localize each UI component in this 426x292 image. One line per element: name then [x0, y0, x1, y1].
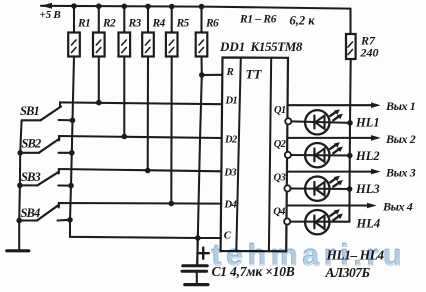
- svg-text:R5: R5: [176, 18, 190, 30]
- output bubble Q1: [285, 118, 291, 124]
- arrow Vyh3: [371, 169, 381, 175]
- node: rail junction R3: [122, 4, 128, 10]
- wire R5 to D4 row: [170, 57, 172, 204]
- capacitor C1: [182, 238, 209, 284]
- svg-text:D2: D2: [224, 135, 238, 146]
- arrow Vyh1: [371, 102, 381, 108]
- switch SB3: [20, 170, 71, 186]
- svg-text:Q1: Q1: [274, 105, 286, 116]
- resistor R6: [196, 7, 219, 57]
- node: SB4 contact on bus: [67, 217, 73, 223]
- svg-text:R1 – R6: R1 – R6: [239, 14, 277, 26]
- svg-text:R1: R1: [77, 18, 90, 30]
- resistor R3: [119, 6, 142, 56]
- svg-text:HL2: HL2: [355, 149, 380, 163]
- node: SB3 pivot: [17, 183, 23, 189]
- wire Vyh3 row: [288, 171, 372, 173]
- wire D2 row: [59, 136, 222, 141]
- svg-text:SB2: SB2: [22, 137, 41, 151]
- wire Vyh2 row: [288, 137, 372, 139]
- wire R3 to D2 row: [123, 57, 125, 137]
- watermark tehmari.ru: [211, 238, 406, 272]
- switch SB1: [20, 104, 73, 120]
- svg-text:Q2: Q2: [274, 139, 287, 150]
- node: HL2 cathode bus: [347, 153, 353, 159]
- LED HL3: [291, 176, 380, 201]
- wire R1 column / clock bus: [70, 57, 221, 239]
- +5V arrow: [41, 3, 52, 9]
- svg-text:D1: D1: [225, 96, 238, 107]
- node: rail junction R1: [71, 3, 77, 9]
- node: R3-D2 junction: [122, 134, 128, 140]
- wire left ground bus: [19, 120, 21, 250]
- svg-text:D3: D3: [223, 168, 236, 179]
- resistor R2: [93, 6, 116, 56]
- svg-text:К155ТМ8: К155ТМ8: [250, 39, 303, 54]
- node: rail junction R4: [145, 4, 151, 10]
- node: R6-R row junction: [199, 72, 205, 78]
- resistor R4: [142, 6, 165, 56]
- svg-text:R3: R3: [128, 18, 142, 30]
- svg-text:SB3: SB3: [21, 170, 40, 184]
- switch SB4: [19, 205, 70, 221]
- wire R6 column down to capacitor: [197, 57, 202, 266]
- svg-text:R: R: [226, 66, 234, 78]
- LED HL4: [290, 209, 380, 234]
- svg-text:Вых 4: Вых 4: [382, 200, 413, 214]
- ground under C1: [185, 283, 208, 286]
- resistor R5: [166, 7, 190, 57]
- ground left: [7, 249, 29, 252]
- svg-text:HL4: HL4: [356, 216, 381, 230]
- node: R2-D1 junction: [96, 100, 102, 106]
- node: SB3 contact on bus: [68, 183, 74, 189]
- node: rail junction R5: [169, 4, 175, 10]
- IC right divider: [269, 58, 271, 252]
- node: SB2 contact on bus: [69, 150, 75, 156]
- svg-text:HL3: HL3: [355, 182, 380, 196]
- node: HL3 cathode bus: [347, 186, 353, 192]
- node: SB4 pivot: [16, 218, 22, 224]
- output bubble Q4: [284, 218, 290, 224]
- wire D4 row: [59, 203, 222, 208]
- switch SB2: [20, 137, 72, 153]
- svg-text:Вых 1: Вых 1: [385, 99, 415, 113]
- arrow Vyh4: [367, 203, 377, 209]
- node: rail junction R2: [96, 3, 102, 9]
- IC left divider: [236, 58, 241, 252]
- svg-text:R4: R4: [152, 18, 166, 30]
- svg-text:Вых 2: Вых 2: [385, 132, 416, 146]
- svg-text:SB1: SB1: [20, 104, 39, 118]
- svg-text:DD1: DD1: [219, 39, 245, 54]
- svg-text:Вых 3: Вых 3: [385, 166, 416, 180]
- svg-text:R6: R6: [205, 18, 219, 30]
- node: capacitor tap on C row: [195, 235, 201, 241]
- node: R5-D4 junction: [169, 201, 175, 207]
- node: HL1 cathode bus: [347, 120, 353, 126]
- wire D1 row: [60, 102, 222, 107]
- svg-text:R2: R2: [102, 18, 116, 30]
- arrow Vyh2: [371, 135, 381, 141]
- node: SB2 pivot: [17, 150, 23, 156]
- svg-text:tehmari.ru: tehmari.ru: [212, 239, 407, 272]
- output bubble Q2: [285, 152, 291, 158]
- IC DD1 K155TM8 outline: [221, 58, 288, 252]
- node: rail junction R6: [199, 4, 205, 10]
- svg-text:240: 240: [360, 46, 379, 60]
- wire cathode bus: [349, 59, 350, 222]
- output bubble Q3: [284, 185, 290, 191]
- svg-text:Q4: Q4: [273, 207, 285, 218]
- wire D3 row: [59, 169, 222, 174]
- wire R4 to D3 row: [147, 57, 149, 171]
- wire R2 to D1 row: [98, 57, 100, 103]
- svg-text:HL1: HL1: [355, 116, 380, 130]
- wire R input row: [202, 74, 222, 76]
- svg-text:Q3: Q3: [274, 173, 286, 184]
- LED HL1: [291, 109, 379, 134]
- svg-text:6,2 к: 6,2 к: [290, 14, 316, 28]
- wire Vyh4 row: [288, 204, 368, 206]
- svg-text:+5 В: +5 В: [40, 9, 61, 21]
- node: SB1 contact on bus: [70, 118, 76, 124]
- resistor R1: [68, 6, 90, 57]
- wire Vyh1 row: [288, 104, 372, 106]
- LED HL2: [291, 142, 380, 167]
- resistor R7: [346, 9, 379, 60]
- +5V rail wire: [41, 6, 351, 9]
- svg-text:D4: D4: [224, 199, 237, 210]
- svg-text:SB4: SB4: [21, 206, 40, 220]
- node: R4-D3 junction: [145, 168, 151, 174]
- svg-text:ТТ: ТТ: [246, 67, 263, 82]
